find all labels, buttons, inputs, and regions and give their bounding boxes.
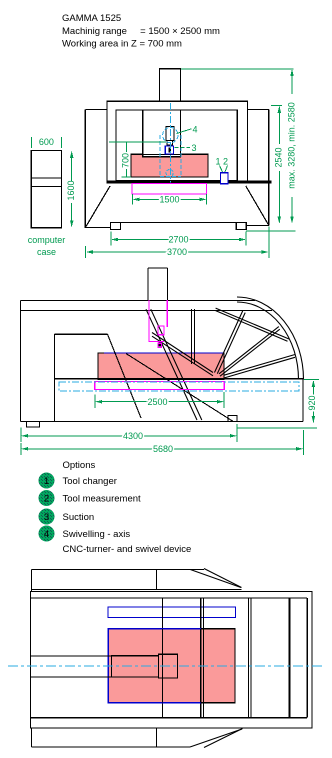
side: beam bottom line [21, 310, 273, 312]
front: top tower [160, 69, 181, 102]
option circle 2 [39, 490, 55, 506]
front: right leg diagonal [246, 186, 268, 225]
plan: inner bottom line [31, 717, 308, 719]
front dim: 2540 line lower [278, 171, 280, 223]
front arrows: 2540 bottom [278, 216, 282, 223]
plan: vertical x248 [248, 598, 250, 718]
front dim: 3280 line lower [291, 197, 293, 223]
side arrows: 2500 right [217, 400, 224, 404]
plan: redraw verticals over pink [162, 629, 203, 703]
side: spoke 1 [215, 311, 246, 374]
side: hub brace double [152, 333, 213, 376]
front: small cyan circle on table [166, 169, 173, 176]
side: Z column left edge [147, 268, 149, 301]
front: cyan travel right dashed line [180, 135, 182, 177]
front: thick bed line [108, 180, 272, 183]
side: magenta spindle outline [149, 300, 167, 342]
svg-text:4: 4 [193, 125, 198, 135]
front: left leg diagonal [86, 186, 110, 227]
side: beam top line [21, 300, 256, 302]
side: magenta tool tip [158, 343, 161, 347]
front: leader to label 3 [175, 147, 191, 149]
side dim: 2500 line [97, 401, 223, 403]
front dim: 1600 line upper [71, 154, 73, 182]
front: cyan circle around spindle [163, 127, 178, 142]
front: right column outer vertical [268, 110, 270, 226]
side dim: 920 bottom ext [237, 427, 317, 429]
front: left foot [111, 223, 121, 230]
svg-text:1500: 1500 [159, 195, 179, 205]
front arrows: 3700 left [86, 250, 93, 254]
front dim: 2700 right tick [245, 232, 247, 246]
plan: top bar chamfer 1 [190, 570, 241, 588]
front dim: 1500 line [134, 198, 205, 200]
svg-text:1: 1 [44, 476, 49, 487]
front arrows: 1500 left [133, 198, 140, 202]
svg-text:case: case [37, 247, 56, 257]
plan: top bar left [31, 570, 33, 592]
svg-text:Working area in Z = 700 mm: Working area in Z = 700 mm [62, 39, 182, 50]
svg-text:600: 600 [39, 137, 54, 147]
front: left column outer vertical [84, 110, 86, 229]
svg-text:Machinig range = 1500 × 25: Machinig range = 1500 × 2500 mm [62, 26, 220, 37]
plan: inner top line [31, 597, 308, 599]
svg-text:GAMMA 1525: GAMMA 1525 [62, 13, 121, 24]
front dim: 600 left tick [30, 137, 32, 148]
front: right foot [236, 223, 246, 230]
side: Z column tip [158, 341, 161, 346]
front: table top border over carriage [131, 153, 208, 155]
plan: bottom bar bottom [32, 746, 191, 748]
side: bottom line [21, 421, 304, 423]
svg-text:2500: 2500 [147, 397, 167, 407]
svg-text:computer: computer [28, 235, 66, 245]
computer case body [31, 151, 61, 228]
side: column profile top [54, 333, 107, 335]
side: spoke 2 [219, 327, 280, 377]
side dim: 5680 line [23, 448, 302, 450]
side: left edge [20, 301, 22, 422]
side: spoke 3 [224, 355, 295, 379]
svg-text:4: 4 [44, 529, 49, 540]
side: diagonal B double [146, 309, 202, 420]
front: leader label 1 [220, 166, 223, 173]
svg-text:3700: 3700 [167, 247, 187, 257]
svg-text:4300: 4300 [123, 431, 143, 441]
front dim: bottom right extension [246, 230, 295, 232]
front: 1-2 blue sensor box [221, 173, 229, 184]
side arrows: 920 top [312, 380, 316, 387]
side dim: 920 line [312, 381, 314, 395]
front arrows: 3700 right [262, 250, 269, 254]
svg-text:2540: 2540 [274, 147, 284, 167]
side dim: 5680 left tick [20, 443, 22, 455]
front arrows: 3280 top [290, 69, 294, 76]
side arrows: 4300 left [21, 434, 28, 438]
front: spindle nose [167, 141, 173, 145]
svg-text:2700: 2700 [168, 235, 188, 245]
svg-text:Tool changer: Tool changer [63, 476, 117, 487]
side: diagonal C [126, 354, 233, 422]
front: cyan centre line [169, 103, 171, 183]
svg-text:3: 3 [44, 512, 49, 523]
side arrows: 920 bottom [312, 416, 316, 423]
plan: cyan centre line [8, 665, 324, 667]
front dim: 2700 left tick [110, 232, 112, 246]
plan: vertical x204 [202, 598, 204, 718]
front arrows: 1600 bottom [70, 220, 74, 227]
front dim: 3700 right tick [268, 227, 270, 259]
front: inner window [116, 110, 237, 181]
side dim: 920 top ext [304, 379, 319, 381]
front: left floor line [85, 227, 111, 229]
plan: channel top line [31, 655, 112, 657]
side: left foot bump [27, 422, 40, 428]
svg-text:Options: Options [63, 460, 96, 471]
side arrows: 4300 right [230, 434, 237, 438]
side: outer arc [237, 297, 304, 380]
side: pink table [98, 353, 224, 380]
front arrows: 2700 right [239, 238, 246, 242]
front: cyan travel bottom dashed line [160, 176, 181, 178]
front dim: 2700 line [113, 239, 245, 241]
front dim: top extension to 3280 [181, 68, 294, 70]
plan: bottom bar left [31, 728, 33, 747]
side: Z column top [148, 267, 168, 269]
side dim: 5680 right tick [302, 430, 304, 455]
side: vertical spoke pair [192, 309, 195, 364]
front: left column top line [85, 109, 107, 111]
plan: top bar bottom [32, 589, 242, 591]
plan: vertical x289 [289, 598, 291, 718]
front dim: 3280 line upper [291, 70, 293, 94]
front arrows: 2700 left [111, 238, 118, 242]
front: Z carriage box [143, 110, 181, 157]
front: bed bottom line [111, 222, 246, 224]
svg-text:Swivelling - axis: Swivelling - axis [63, 529, 131, 540]
side arrows: 5680 right [296, 447, 303, 451]
front: spindle body [166, 126, 174, 140]
svg-text:1600: 1600 [66, 180, 76, 200]
front arrows: 2540 top [278, 106, 282, 113]
svg-text:920: 920 [307, 395, 317, 410]
plan: vertical x251 [250, 598, 252, 718]
plan: top bar divider [155, 570, 157, 590]
svg-text:Tool measurement: Tool measurement [63, 494, 142, 505]
computer case line 2 [31, 186, 61, 188]
side: blue top edge of table [104, 352, 224, 354]
plan: pink blue border left half [108, 629, 201, 703]
front dim: 700 line lower [125, 169, 127, 177]
side: base rear vertical [302, 379, 304, 422]
side: inner arc [237, 302, 299, 380]
side dim: 4300 left tick [20, 428, 22, 443]
front dim: right extension to 2540 [271, 105, 282, 107]
side: bottom step box [228, 416, 237, 422]
svg-text:700: 700 [121, 153, 131, 168]
plan: blue rail bar [108, 607, 236, 618]
option circle 3 [39, 509, 55, 525]
plan: bottom bar divider [155, 728, 157, 747]
front dim: 700 line upper [125, 142, 127, 152]
front: gantry beam frame [107, 101, 247, 183]
plan: verticals crossing blue bar [162, 606, 203, 620]
computer case line 1 [31, 177, 61, 179]
side: table line [55, 378, 303, 380]
side: cyan dashed table range [59, 382, 299, 391]
side dim: 2500 right tick [223, 392, 225, 408]
front dim: 700 bottom tick [122, 176, 132, 178]
side: magenta vacuum plate [95, 381, 224, 389]
front arrows: 1600 top [70, 151, 74, 158]
front: magenta vacuum plate [132, 183, 207, 194]
front dim: 2540 line upper [278, 107, 280, 144]
svg-text:1 2: 1 2 [216, 157, 229, 167]
front: blue tool holder [165, 146, 173, 154]
option circle 4 [39, 526, 55, 542]
side: magenta spindle inner box [158, 326, 164, 335]
plan: X beam box [112, 656, 159, 677]
front dim: 1500 right tick [206, 194, 208, 205]
svg-text:max. 3280, min. 2580: max. 3280, min. 2580 [286, 102, 296, 189]
front dim: 1600 line lower [71, 203, 73, 226]
side dim: 2500 left tick [94, 395, 96, 409]
front: right floor line [246, 225, 269, 227]
plan: main body rectangle [31, 592, 313, 729]
front: leader to label 4 [177, 129, 192, 134]
side: Z column right edge [167, 268, 169, 327]
svg-text:2: 2 [44, 494, 49, 505]
side: diagonal A [108, 334, 142, 418]
front: cyan travel left dashed line [159, 135, 161, 177]
side: base front vertical [53, 334, 55, 421]
side dim: 4300 line [23, 435, 236, 437]
plan: top bar chamfer 2 [204, 569, 242, 588]
front dim: 1500 left tick [131, 194, 133, 205]
side: spoke 4 beam line [216, 308, 289, 341]
plan: bottom bar chamfer 2 [204, 729, 243, 748]
plan: bottom bar chamfer 1 [190, 729, 242, 747]
side arrows: 5680 left [21, 447, 28, 451]
plan: spindle head box [158, 654, 177, 678]
svg-text:3: 3 [192, 143, 197, 153]
plan: vertical x162 [161, 598, 163, 718]
front dim: 3700 line [88, 251, 268, 253]
svg-text:Suction: Suction [63, 512, 95, 523]
plan: top bar top [32, 569, 205, 571]
front dim: 3700 left tick [85, 246, 87, 258]
front arrows: 1500 right [199, 198, 206, 202]
plan: vertical x200 [200, 598, 202, 718]
svg-text:5680: 5680 [153, 444, 173, 454]
svg-text:CNC-turner- and swivel device: CNC-turner- and swivel device [63, 544, 192, 555]
front dim: 600 right tick [61, 137, 63, 148]
side arrows: 2500 left [95, 400, 102, 404]
front: right column top line [247, 109, 268, 111]
front arrows: 3280 bottom [290, 216, 294, 223]
front: leader label 2 [225, 166, 228, 173]
plan: pink table [108, 629, 235, 703]
plan: inner right vertical [306, 598, 308, 718]
front: pink work table [131, 154, 208, 177]
side dim: 4300 right tick [236, 424, 238, 442]
front dim: 700 top extension line [109, 141, 166, 143]
plan: channel bottom line [31, 676, 112, 678]
option circle 1 [39, 473, 55, 489]
front: tool bit [168, 148, 171, 153]
